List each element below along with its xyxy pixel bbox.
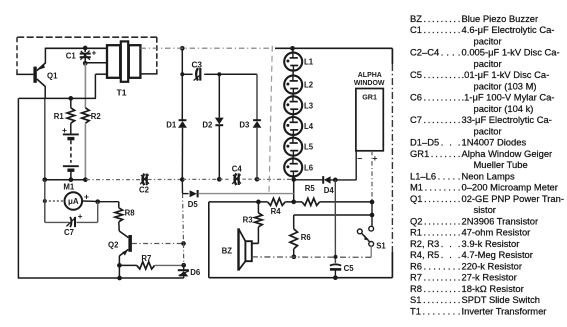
node R5 right xyxy=(370,200,375,205)
wire R2 bottom xyxy=(84,123,86,180)
wire box top rail R3R4R5 xyxy=(209,201,268,203)
wire rail to C2 xyxy=(86,179,142,181)
node rail left end xyxy=(42,177,47,182)
capacitor C7 loop xyxy=(97,202,99,223)
svg-text:R7: R7 xyxy=(410,272,422,283)
node D1 bottom xyxy=(180,177,185,182)
wire GR1 plus lead xyxy=(371,151,373,202)
diode D4 xyxy=(323,176,334,195)
svg-text:C1: C1 xyxy=(66,51,77,60)
svg-text:C4: C4 xyxy=(232,165,243,174)
svg-text:D6: D6 xyxy=(190,268,201,277)
svg-text:pacitor (104 k): pacitor (104 k) xyxy=(474,103,534,114)
svg-text:Inverter Transformer: Inverter Transformer xyxy=(462,305,547,316)
svg-text:4.7-Meg Resistor: 4.7-Meg Resistor xyxy=(462,249,533,260)
capacitor C2 xyxy=(143,174,145,186)
wire box bottom edge xyxy=(209,277,393,279)
capacitor C1 xyxy=(84,48,86,52)
wire L6 to D4 xyxy=(294,179,323,181)
svg-text:R7: R7 xyxy=(141,254,151,263)
svg-text:Q2: Q2 xyxy=(108,240,119,249)
node C3/D2 xyxy=(217,72,221,76)
svg-text:C3: C3 xyxy=(192,61,203,70)
node Q2 emitter bottom xyxy=(117,276,122,281)
wire GR1 minus lead xyxy=(355,151,357,180)
svg-text:pacitor: pacitor xyxy=(474,58,502,69)
svg-text:+: + xyxy=(372,153,377,163)
svg-text:C2–C4: C2–C4 xyxy=(410,47,439,58)
wire C1 to T1 middle tap xyxy=(85,62,106,64)
wire scan fold line xyxy=(269,46,272,194)
wire D3node to L6 node xyxy=(257,178,294,180)
svg-text:47-ohm Resistor: 47-ohm Resistor xyxy=(462,227,531,238)
svg-text:C5: C5 xyxy=(344,264,355,273)
resistor R4 xyxy=(268,198,286,205)
svg-text:.........: ......... xyxy=(424,193,460,204)
svg-text:R2, R3: R2, R3 xyxy=(410,238,439,249)
node C3 tap xyxy=(180,72,184,76)
svg-text:Q1: Q1 xyxy=(47,71,58,80)
svg-text:R6: R6 xyxy=(301,233,312,242)
wire to C4 xyxy=(219,178,231,180)
wire C1 node down to R2 xyxy=(84,63,86,108)
capacitor C4 xyxy=(235,173,237,185)
node C1 top xyxy=(83,46,88,51)
wire HV top rail dashes xyxy=(140,47,275,49)
wire speaker top stub xyxy=(252,242,259,244)
svg-text:pacitor: pacitor xyxy=(474,125,502,136)
node D3 bottom xyxy=(255,177,260,182)
svg-text:Blue Piezo Buzzer: Blue Piezo Buzzer xyxy=(462,13,539,24)
wire Q1 collector drop xyxy=(44,86,46,98)
svg-text:D3: D3 xyxy=(239,120,250,129)
svg-text:WINDOW: WINDOW xyxy=(354,80,385,87)
svg-text:R1: R1 xyxy=(54,112,65,121)
svg-text:R8: R8 xyxy=(410,283,422,294)
wire feedback top rail xyxy=(17,36,157,38)
node L6 bottom xyxy=(291,177,296,182)
svg-text:D2: D2 xyxy=(202,120,213,129)
svg-text:27-k Resistor: 27-k Resistor xyxy=(462,272,517,283)
svg-text:R1: R1 xyxy=(410,227,422,238)
node D2 bottom xyxy=(217,177,222,182)
battery xyxy=(70,123,72,134)
svg-text:3.9-k Resistor: 3.9-k Resistor xyxy=(462,238,520,249)
wire C3 branch xyxy=(182,73,192,75)
wire feedback left drop to Q1 base xyxy=(16,37,18,74)
svg-text:GR1: GR1 xyxy=(362,93,377,102)
svg-text:pacitor: pacitor xyxy=(474,35,502,46)
wire D3 column xyxy=(256,74,258,119)
wire M1 left column xyxy=(44,180,46,223)
svg-text:BZ: BZ xyxy=(222,247,233,256)
wire base rail y98 xyxy=(19,97,96,99)
geiger tube GR1 xyxy=(354,72,385,164)
svg-text:.........: ......... xyxy=(424,13,461,24)
svg-text:T1: T1 xyxy=(410,305,421,316)
svg-text:2N3906 Transistor: 2N3906 Transistor xyxy=(462,215,539,226)
svg-text:Q1: Q1 xyxy=(410,193,423,204)
wire +V rail to T1 xyxy=(45,47,106,49)
svg-text:C2: C2 xyxy=(139,186,150,195)
capacitor C5 xyxy=(334,180,336,263)
wire D5 branch xyxy=(183,193,189,195)
svg-text:D5: D5 xyxy=(188,200,199,209)
svg-text:.........: ......... xyxy=(424,92,461,103)
svg-text:1N4007 Diodes: 1N4007 Diodes xyxy=(462,137,527,148)
wire D1node to D2node xyxy=(182,178,219,180)
svg-text:Q2: Q2 xyxy=(410,215,423,226)
switch S1 xyxy=(357,226,386,250)
node C5 bottom xyxy=(333,275,338,280)
wire D5 column xyxy=(181,180,183,194)
svg-text:D4: D4 xyxy=(324,186,335,195)
wire left side lower xyxy=(17,98,19,278)
node D6 top xyxy=(181,263,186,268)
resistor R8 xyxy=(118,202,120,208)
wire R6 top rail xyxy=(294,214,372,216)
wire speaker bottom to S1 xyxy=(252,256,371,258)
svg-text:Alpha Window Geiger: Alpha Window Geiger xyxy=(462,148,553,159)
svg-text:sistor: sistor xyxy=(474,204,496,215)
svg-text:.........: ......... xyxy=(424,283,461,294)
svg-text:S1: S1 xyxy=(376,241,386,250)
node R1 top xyxy=(68,96,73,101)
wire T1 right-bottom feedback lead xyxy=(140,73,157,75)
resistor R5 xyxy=(302,198,320,205)
wire Q2 emitter down xyxy=(118,256,120,278)
diode D2 xyxy=(215,118,224,125)
svg-text:.........: ......... xyxy=(424,69,461,80)
svg-text:.........: ......... xyxy=(424,215,460,226)
svg-text:R3: R3 xyxy=(243,216,254,225)
svg-text:L6: L6 xyxy=(304,163,314,172)
resistor R7 xyxy=(119,264,136,266)
svg-text:.01-μF 1-kV Disc Ca-: .01-μF 1-kV Disc Ca- xyxy=(462,69,550,80)
diode D1 xyxy=(179,119,187,121)
node lamp chain top xyxy=(290,46,295,51)
parts list xyxy=(410,13,564,317)
node Q2 base / D5 column xyxy=(181,241,186,246)
node R6 bottom xyxy=(292,254,297,259)
wire D2 column xyxy=(218,74,220,117)
svg-text:D1: D1 xyxy=(166,120,177,129)
svg-text:18-kΩ Resistor: 18-kΩ Resistor xyxy=(462,283,524,294)
diode D3 xyxy=(253,119,261,121)
svg-text:R6: R6 xyxy=(410,260,422,271)
wire feedback right drop xyxy=(156,37,158,74)
node lamp column bottom xyxy=(291,200,296,205)
wire S1 common down xyxy=(370,246,372,257)
wire ground rail mid (left) xyxy=(45,179,86,181)
svg-text:ALPHA: ALPHA xyxy=(358,72,382,79)
node top rail / D1 xyxy=(180,46,185,51)
resistor R6 xyxy=(293,215,295,229)
wire T1 left-bottom lead xyxy=(95,73,107,75)
wire lamp stubs xyxy=(292,48,295,179)
node S1 column upper xyxy=(370,213,375,218)
svg-text:.........: ......... xyxy=(424,227,461,238)
resistor R2 xyxy=(82,108,90,123)
svg-text:L2: L2 xyxy=(304,81,314,90)
svg-text:L4: L4 xyxy=(304,122,314,131)
wire bottom ground rail xyxy=(18,277,184,279)
svg-text:C7: C7 xyxy=(410,114,422,125)
transformer T1 xyxy=(107,45,120,78)
lamp L3 xyxy=(284,96,314,114)
svg-text:−: − xyxy=(357,154,362,164)
svg-text:02-GE PNP Power Tran-: 02-GE PNP Power Tran- xyxy=(462,193,564,204)
resistor R3 xyxy=(257,202,259,213)
svg-text:Mueller Tube: Mueller Tube xyxy=(474,159,528,170)
wire C4 to D3 node xyxy=(242,178,257,180)
node R3 top xyxy=(256,200,261,205)
capacitor C3 xyxy=(196,68,198,81)
svg-text:GR1: GR1 xyxy=(410,148,429,159)
wire over to D3 column xyxy=(219,73,257,75)
transistor Q2 xyxy=(118,222,120,231)
svg-text:33-μF Electrolytic Ca-: 33-μF Electrolytic Ca- xyxy=(462,114,552,125)
wire Q2 base lead xyxy=(132,243,184,245)
svg-text:C5: C5 xyxy=(410,69,422,80)
wire lamp column to R4R5 rail xyxy=(293,180,295,202)
svg-text:0–200 Microamp Meter: 0–200 Microamp Meter xyxy=(462,182,558,193)
lamp L1 xyxy=(284,53,314,71)
node C1 bottom xyxy=(83,61,88,66)
svg-text:R5: R5 xyxy=(305,184,316,193)
svg-text:Neon Lamps: Neon Lamps xyxy=(462,170,515,181)
svg-text:R4: R4 xyxy=(271,207,282,216)
svg-text:C7: C7 xyxy=(64,228,74,237)
svg-text:C1: C1 xyxy=(410,24,422,35)
svg-text:BZ: BZ xyxy=(410,13,422,24)
node battery bottom xyxy=(69,177,74,182)
svg-text:+: + xyxy=(84,192,89,202)
svg-text:R2: R2 xyxy=(91,112,102,121)
svg-text:+: + xyxy=(92,48,97,58)
svg-text:4.6-μF Electrolytic Ca-: 4.6-μF Electrolytic Ca- xyxy=(462,24,555,35)
node C5 top xyxy=(333,178,338,183)
lamp L5 xyxy=(284,138,314,156)
svg-text:L1–L6: L1–L6 xyxy=(410,170,436,181)
svg-text:+: + xyxy=(78,212,83,221)
diode D6 xyxy=(183,265,185,269)
transistor Q1 xyxy=(33,67,36,83)
diode D5 xyxy=(188,190,199,209)
wire D1 column xyxy=(181,48,183,119)
svg-text:L3: L3 xyxy=(304,101,314,110)
lamp L4 xyxy=(284,117,314,135)
svg-text:220-k Resistor: 220-k Resistor xyxy=(462,260,522,271)
wire C2 to D1 node xyxy=(148,179,183,181)
wire right side drop xyxy=(391,48,393,64)
node M1 plus xyxy=(95,199,100,204)
svg-text:R8: R8 xyxy=(125,208,136,217)
wire S1 column xyxy=(371,202,373,226)
svg-text:L5: L5 xyxy=(304,143,314,152)
svg-text:D1–D5: D1–D5 xyxy=(410,137,439,148)
resistor R1 xyxy=(70,98,72,107)
svg-text:.........: ......... xyxy=(423,294,460,305)
wire Q1 base lead xyxy=(16,73,33,75)
wire D5 to lamp column xyxy=(198,193,293,195)
node R7 left xyxy=(117,263,122,268)
svg-text:S1: S1 xyxy=(410,294,421,305)
wire HV top rail solid xyxy=(275,47,392,49)
wire box left edge xyxy=(208,202,210,278)
svg-text:.........: ......... xyxy=(424,272,461,283)
svg-text:L1: L1 xyxy=(304,58,314,67)
svg-text:.........: ......... xyxy=(424,24,461,35)
node collector rail xyxy=(43,199,47,203)
svg-text:pacitor (103 M): pacitor (103 M) xyxy=(474,80,537,91)
svg-text:SPDT Slide Switch: SPDT Slide Switch xyxy=(462,294,541,305)
svg-text:.........: ......... xyxy=(424,114,461,125)
svg-text:0.005-μF 1-kV Disc Ca-: 0.005-μF 1-kV Disc Ca- xyxy=(462,47,560,58)
svg-text:.1-μF 100-V Mylar Ca-: .1-μF 100-V Mylar Ca- xyxy=(462,92,555,103)
svg-text:M1: M1 xyxy=(63,183,74,192)
svg-text:C6: C6 xyxy=(410,92,422,103)
node R2 bottom xyxy=(83,177,88,182)
svg-text:R4, R5: R4, R5 xyxy=(410,249,439,260)
wire to R8 xyxy=(98,201,119,203)
buzzer BZ speaker xyxy=(222,228,252,270)
lamp L2 xyxy=(284,76,314,94)
svg-text:M1: M1 xyxy=(410,182,423,193)
svg-text:T1: T1 xyxy=(117,88,127,98)
svg-text:μA: μA xyxy=(68,197,79,206)
lamp L6 xyxy=(284,158,314,176)
